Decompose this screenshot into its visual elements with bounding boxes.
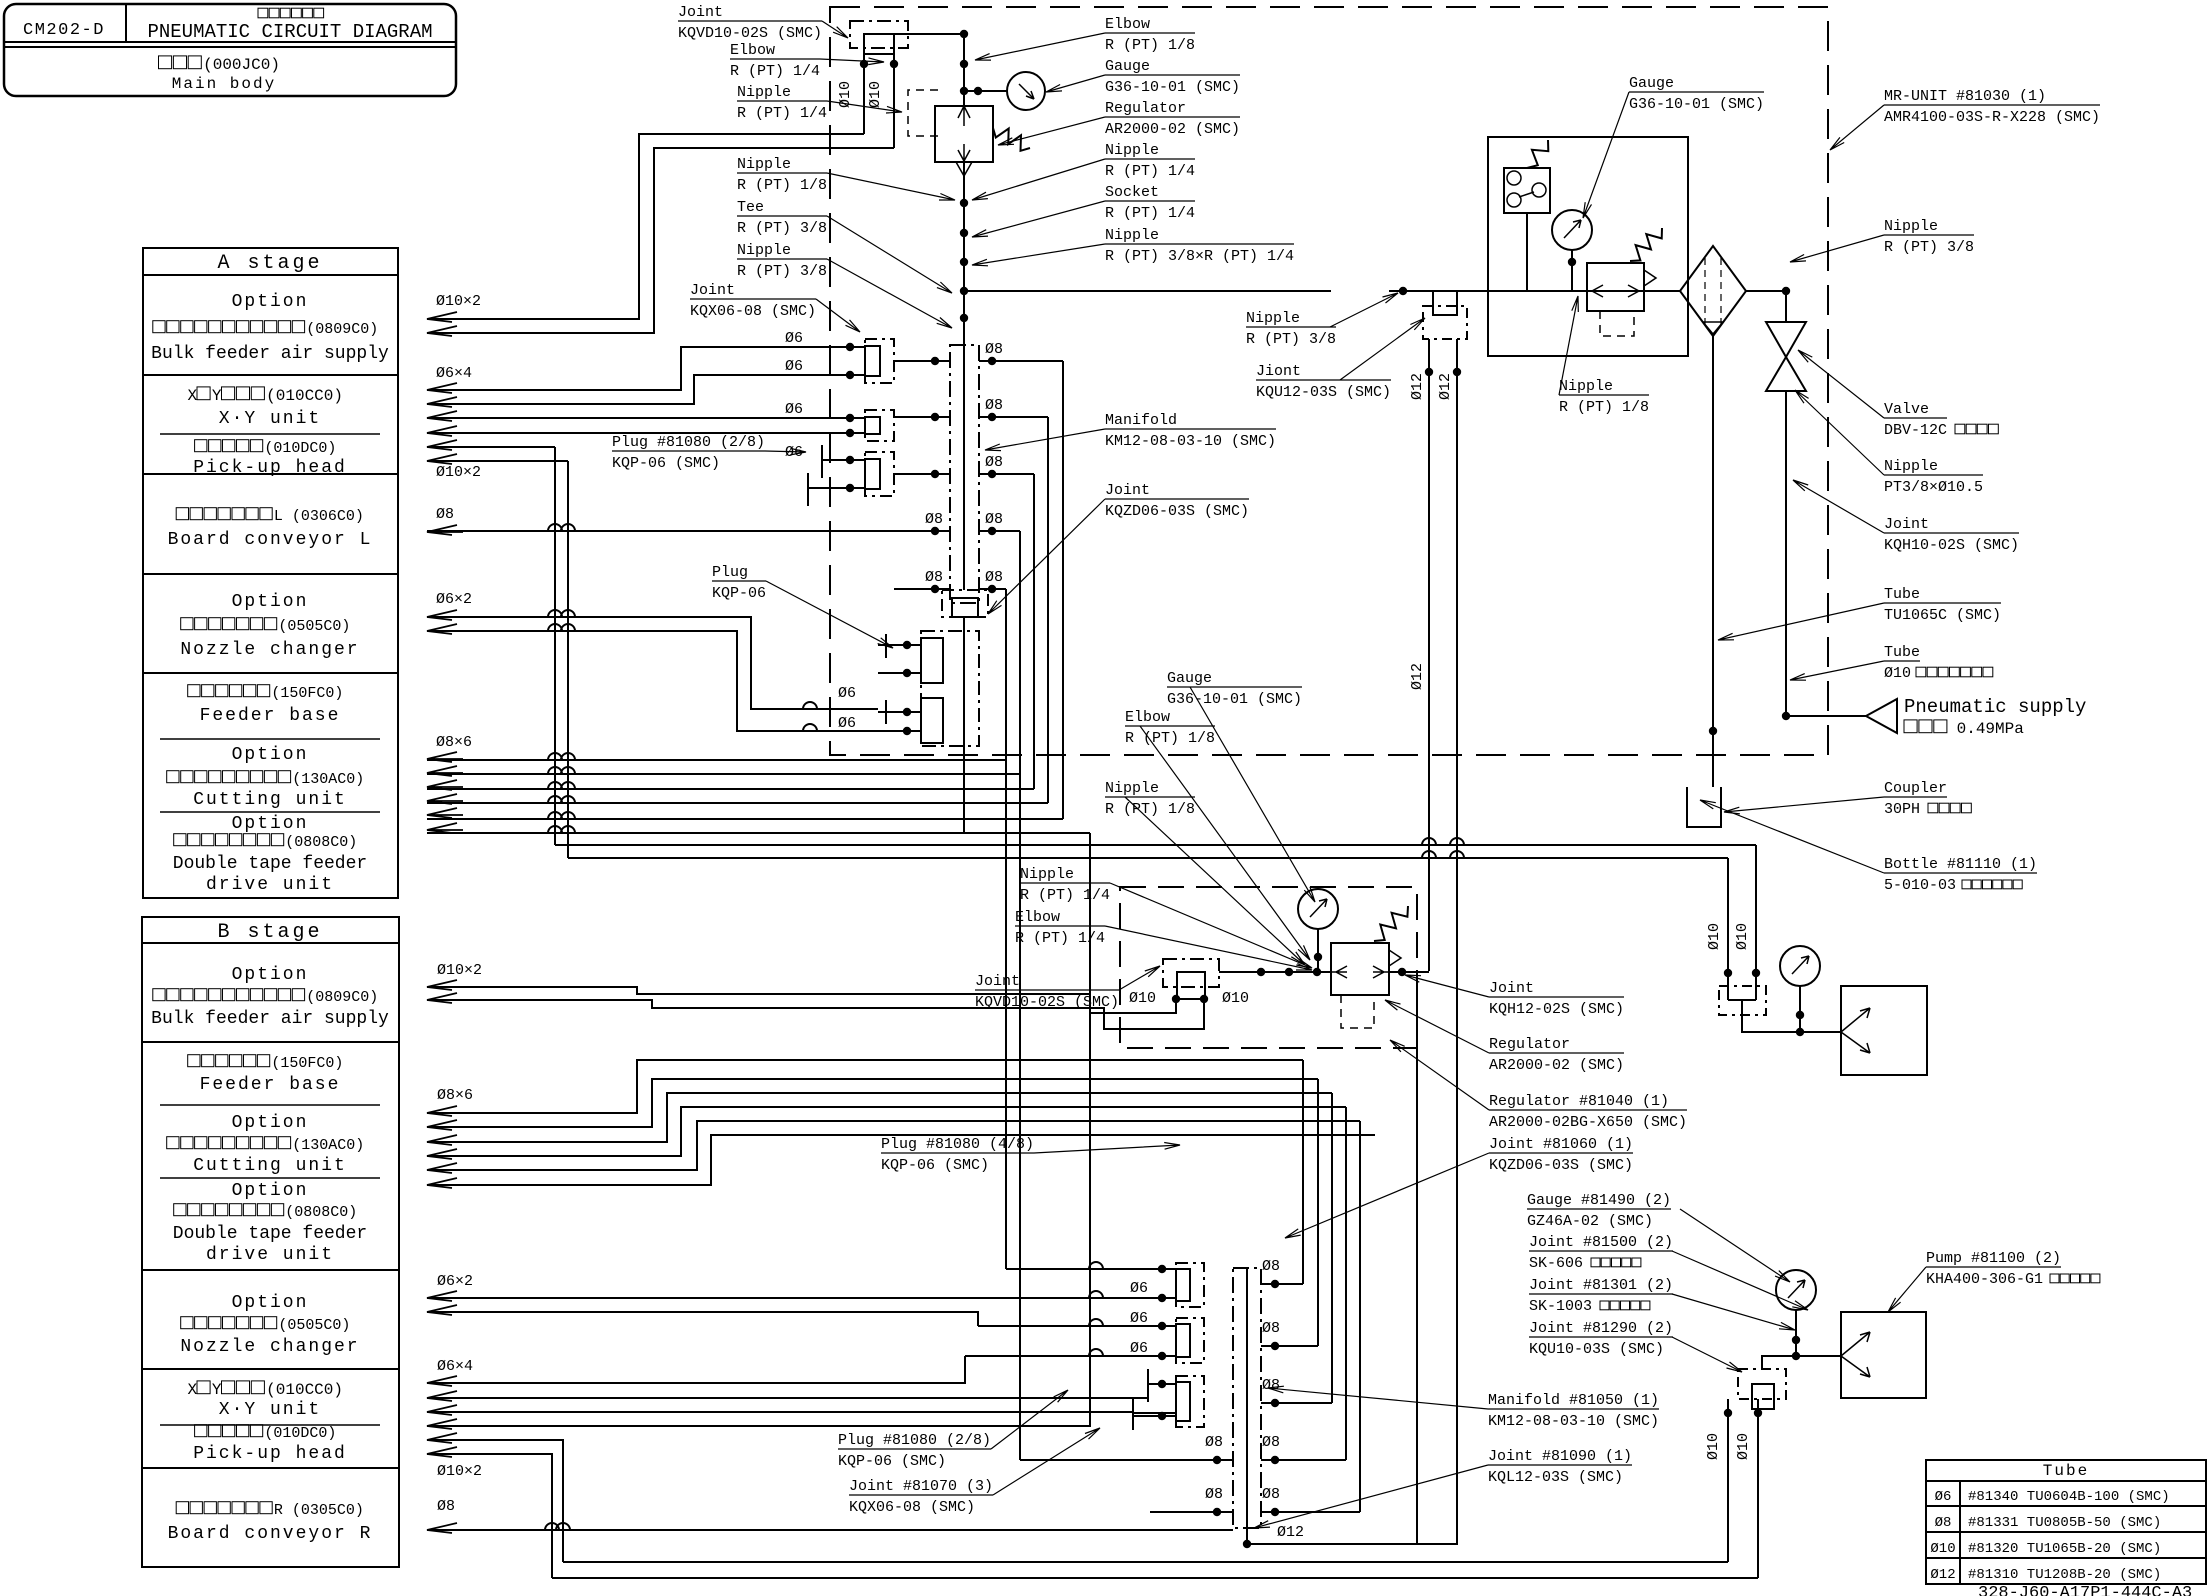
arrow head O8 wire y=532 [427,525,463,535]
wire O6x4 A 1 [427,347,836,390]
svg-text:Ø6×2: Ø6×2 [437,1273,473,1290]
svg-text:(0809C0): (0809C0) [306,321,378,338]
node dot gauge B [1314,953,1322,961]
tube table frame [1926,1460,2206,1584]
svg-text:Ø12: Ø12 [1409,663,1426,690]
manifold B right drop 1 [1302,1060,1304,1284]
svg-text:Plug #81080 (4/8): Plug #81080 (4/8) [881,1136,1034,1153]
subtitle main body japanese [159,56,202,69]
svg-text:Ø6: Ø6 [838,685,856,702]
arrow head O8x6 wire y=773 [427,766,463,776]
svg-text:A stage: A stage [217,252,322,275]
svg-text:Joint: Joint [690,282,735,299]
gauge B circle [1298,889,1338,929]
svg-text:SK-606: SK-606 [1529,1255,1583,1272]
arrow head O6x2 wire y=617 [427,610,463,620]
manifold B right port O8 1 [1261,1283,1303,1285]
node dots pump A line [1796,1011,1804,1019]
svg-text:Y: Y [212,387,222,405]
svg-text:Joint #81290 (2): Joint #81290 (2) [1529,1320,1673,1337]
svg-text:KQH12-02S (SMC): KQH12-02S (SMC) [1489,1001,1624,1018]
gauge MR stem [1571,250,1573,291]
arrow head O8 wire y=1530 [427,1523,463,1533]
node dot supply [1782,712,1790,720]
svg-text:Ø6×2: Ø6×2 [436,591,472,608]
main line B y=972 [1219,971,1331,973]
label plug 81080 4/8 B [881,1136,1034,1153]
svg-text:Main body: Main body [172,75,276,93]
wire O6x4 B 2 [427,1397,1148,1399]
svg-text:(010DC0): (010DC0) [264,440,336,457]
wire O10x2 pickup A stub 2 [427,460,568,462]
label bottle 81110 [1884,856,2037,873]
label gauge G36 MR [1629,75,1764,92]
arrow head O8x6 wire y=815 [427,808,463,818]
svg-text:Valve: Valve [1884,401,1929,418]
node dot gauge MR [1568,258,1576,266]
svg-text:KM12-08-03-10 (SMC): KM12-08-03-10 (SMC) [1488,1413,1659,1430]
node dot joint right [890,60,898,68]
svg-text:R (PT) 3/8: R (PT) 3/8 [1884,239,1974,256]
joint B pump stem up [1762,1356,1841,1369]
center vertical feed 2 [1019,531,1021,1460]
wires plug bars to joint3 [822,459,865,461]
svg-text:G36-10-01 (SMC): G36-10-01 (SMC) [1105,79,1240,96]
svg-text:Feeder base: Feeder base [200,706,341,726]
svg-text:R (PT) 1/8: R (PT) 1/8 [737,177,827,194]
label elbow R PT 1/8 right [1105,16,1195,33]
O12 vertical right [1456,339,1458,1544]
joint KQU12-03S dashed box [1423,306,1467,339]
svg-text:Manifold #81050 (1): Manifold #81050 (1) [1488,1392,1659,1409]
wire O8x6 A band 5 [427,818,1063,820]
svg-text:Coupler: Coupler [1884,780,1947,797]
label gauge 81490 [1527,1192,1671,1209]
joint KQVD10 B body [1177,972,1205,999]
tube table row divider [1926,1557,2206,1559]
center vertical feed 1 [1005,589,1007,1269]
MR-UNIT solid box [1488,137,1688,356]
svg-text:Ø10×2: Ø10×2 [436,464,481,481]
label plug 81080 2/8 B [838,1432,991,1449]
svg-text:KQVD10-02S (SMC): KQVD10-02S (SMC) [678,25,822,42]
svg-text:X·Y unit: X·Y unit [219,409,321,429]
manifold B right port O8 5 [1261,1511,1360,1513]
label plug KQP-06 A [712,564,766,581]
gauge A (G36-10-01) circle [1007,72,1045,110]
regulator MR dashed drain box [1600,311,1634,336]
svg-text:Ø8×6: Ø8×6 [437,1087,473,1104]
svg-text:X: X [187,1381,197,1399]
svg-text:PNEUMATIC CIRCUIT DIAGRAM: PNEUMATIC CIRCUIT DIAGRAM [147,21,432,43]
svg-text:KQZD06-03S (SMC): KQZD06-03S (SMC) [1105,503,1249,520]
svg-text:Ø8: Ø8 [925,511,943,528]
label nipple R PT 3/8 right [1884,218,1974,235]
wire joint right port down [893,54,895,148]
regulator B spring [1374,906,1408,941]
A stage row divider [143,573,398,575]
joint KQX06-08 body 1 [865,346,880,376]
svg-text:Gauge #81490 (2): Gauge #81490 (2) [1527,1192,1671,1209]
node dot tee at 1403 [1399,287,1407,295]
svg-text:Ø10: Ø10 [867,81,884,108]
svg-text:Ø6×4: Ø6×4 [436,365,472,382]
wire O6x4 B 4 [427,1414,1090,1426]
svg-text:G36-10-01 (SMC): G36-10-01 (SMC) [1167,691,1302,708]
pump box B [1841,1312,1926,1398]
bottom right verticals to pump B [1727,1399,1729,1562]
joint KQX06-08 (A) dash-dot box 2 [865,410,894,441]
big dashed enclosure box (main body boundary) [830,7,1828,755]
regulator B internal arrows [1331,966,1389,978]
label valve DBV-12C [1884,401,1947,418]
svg-text:Gauge: Gauge [1629,75,1674,92]
wire O6x4 A 4 [427,432,836,434]
svg-text:TU1065C (SMC): TU1065C (SMC) [1884,607,2001,624]
svg-text:R (PT) 1/8: R (PT) 1/8 [1105,37,1195,54]
svg-text:R (PT) 1/8: R (PT) 1/8 [1105,801,1195,818]
svg-text:Nipple: Nipple [1105,780,1159,797]
svg-text:Ø6×4: Ø6×4 [437,1358,473,1375]
svg-text:Ø6: Ø6 [785,330,803,347]
svg-text:Plug: Plug [712,564,748,581]
svg-text:Option: Option [232,965,309,985]
svg-text:Ø8: Ø8 [925,569,943,586]
svg-text:Nipple: Nipple [1020,866,1074,883]
manifold B right drop 2 [1317,1079,1319,1346]
label regulator 81040 [1489,1093,1687,1110]
title japanese air piping diagram [258,8,324,18]
A stage row divider [143,374,398,376]
gauge pump A circle [1780,946,1820,986]
svg-text:Pick-up head: Pick-up head [193,1444,347,1464]
B stage row divider [142,1269,399,1271]
wire O8x6 B 5 [427,1121,1360,1170]
gauge B stem [1317,929,1319,972]
svg-text:Option: Option [232,592,309,612]
manifold B left port O6 4 [965,1355,1176,1357]
label nipple R PT 1/8 left [737,156,827,173]
regulator A internal arrows [958,106,970,162]
wire O6x4 B 1 [427,1356,965,1383]
regulator B output line [1389,971,1429,973]
svg-text:Ø6: Ø6 [1935,1489,1952,1505]
A stage table frame [143,248,398,898]
label joint KQH12-02S [1489,980,1624,997]
svg-text:GZ46A-02 (SMC): GZ46A-02 (SMC) [1527,1213,1653,1230]
wire O10 B bulk 1 [427,987,1176,1013]
svg-text:Option: Option [232,292,309,312]
node dots O12 [1425,368,1433,376]
svg-text:KQP-06 (SMC): KQP-06 (SMC) [612,455,720,472]
joint ports dots 3 [846,456,854,464]
svg-text:Ø10×2: Ø10×2 [437,962,482,979]
A stage row divider [143,274,398,276]
label MR-UNIT 81030 [1884,88,2100,105]
joint KQX06-08 (A) dash-dot box 1 [865,339,894,383]
filter diamond [1680,246,1746,336]
svg-text:AR2000-02 (SMC): AR2000-02 (SMC) [1105,121,1240,138]
svg-text:#81320 TU1065B-20 (SMC): #81320 TU1065B-20 (SMC) [1968,1541,2161,1557]
svg-text:Regulator: Regulator [1105,100,1186,117]
svg-text:Nipple: Nipple [1559,378,1613,395]
svg-text:Ø10: Ø10 [1222,990,1249,1007]
wire O10x2 pickup A vertical 2 [567,461,569,858]
svg-text:Ø8: Ø8 [1262,1320,1280,1337]
label socket R PT 1/4 [1105,184,1195,201]
joint ports dots 1 [846,343,854,351]
svg-text:Ø10: Ø10 [1884,665,1911,682]
svg-text:Nipple: Nipple [1246,310,1300,327]
svg-text:Pick-up head: Pick-up head [193,458,347,478]
wire O6x2 B 2 [427,1312,978,1326]
label tube O10 hose [1884,644,1920,661]
svg-text:Nipple: Nipple [737,84,791,101]
manifold B left port O6 5 [1148,1383,1176,1385]
svg-text:KQX06-08 (SMC): KQX06-08 (SMC) [690,303,816,320]
svg-text:R (PT) 3/8: R (PT) 3/8 [1246,331,1336,348]
svg-text:Plug #81080 (2/8): Plug #81080 (2/8) [612,434,765,451]
center feed 2 elbow [1020,1459,1150,1461]
svg-text:(150FC0): (150FC0) [271,1055,343,1072]
wire O8x6 A band 1 [427,759,1006,761]
label joint 81290 [1529,1320,1673,1337]
arrow head O10x2 wire y=447 [427,440,463,450]
label elbow R PT 1/4 top [730,42,820,59]
svg-text:KQU12-03S (SMC): KQU12-03S (SMC) [1256,384,1391,401]
manifold A port O8 line 3 [894,473,950,475]
wire O6x2 A 2 [427,631,878,731]
svg-text:(130AC0): (130AC0) [292,771,364,788]
svg-text:R (PT) 1/8: R (PT) 1/8 [1559,399,1649,416]
svg-text:Joint #81301 (2): Joint #81301 (2) [1529,1277,1673,1294]
manifold B right drop 3 [1331,1093,1333,1403]
svg-text:Board conveyor R: Board conveyor R [168,1524,373,1544]
svg-text:R (PT) 1/4: R (PT) 1/4 [730,63,820,80]
svg-text:R (PT) 1/4: R (PT) 1/4 [1105,205,1195,222]
arrow head O6x4 wire y=1398 [427,1391,463,1401]
svg-text:Pump #81100 (2): Pump #81100 (2) [1926,1250,2061,1267]
svg-text:Option: Option [232,1293,309,1313]
wire O8x6 A band 6 [427,832,1090,834]
manifold KM12-08-03-10 (B) dash-dot box [1233,1268,1261,1528]
wire O10x2 A bulk feeder 1 [427,134,864,319]
svg-text:KQX06-08 (SMC): KQX06-08 (SMC) [849,1499,975,1516]
svg-text:Nipple: Nipple [737,242,791,259]
B stage table frame [142,917,399,1567]
svg-text:Ø8: Ø8 [985,511,1003,528]
tube table column divider [1959,1481,1961,1584]
svg-text:Y: Y [212,1381,222,1399]
svg-text:R (PT) 3/8: R (PT) 3/8 [737,263,827,280]
svg-text:Jiont: Jiont [1256,363,1301,380]
label nipple R PT 1/4 right [1105,142,1195,159]
dashed box left of regulator A [908,90,938,136]
svg-text:AR2000-02 (SMC): AR2000-02 (SMC) [1489,1057,1624,1074]
svg-text:CM202-D: CM202-D [23,21,105,40]
wire O10x2 pickup A stub 1 [427,446,555,448]
arrow head O10x2 wire y=987 [427,980,463,990]
svg-text:Joint #81070 (3): Joint #81070 (3) [849,1478,993,1495]
A stage row board conveyor L [176,508,272,520]
pneumatic supply line [1786,715,1866,717]
joint KQL12-03S (B) dashed box [1738,1369,1786,1399]
svg-text:KQP-06: KQP-06 [712,585,766,602]
label regulator AR2000-02 B [1489,1036,1624,1053]
manifold B left side O8 wires rows 4-5 [1150,1459,1233,1461]
svg-text:AMR4100-03S-R-X228 (SMC): AMR4100-03S-R-X228 (SMC) [1884,109,2100,126]
wire O8 B board conveyor [427,1529,1233,1531]
svg-text:Option: Option [232,1113,309,1133]
wire O6x4 B 3 [427,1411,1133,1413]
manifold A port O8 line 1 [894,360,950,362]
main supply line y=291 [964,290,1331,292]
svg-text:Option: Option [232,814,309,834]
regulator MR internal arrows [1587,285,1644,297]
regulator MR side triangle [1644,270,1656,286]
pump/bottle box A [1841,986,1927,1075]
svg-text:KM12-08-03-10 (SMC): KM12-08-03-10 (SMC) [1105,433,1276,450]
B plug bars (Plug #81080) [1147,1369,1149,1402]
regulator MR spring [1630,228,1662,261]
svg-text:Nipple: Nipple [1884,458,1938,475]
wire O10x2 A bulk feeder 2 [427,148,894,333]
svg-text:Ø10×2: Ø10×2 [436,293,481,310]
svg-text:KHA400-306-G1: KHA400-306-G1 [1926,1271,2043,1288]
svg-text:KQH10-02S (SMC): KQH10-02S (SMC) [1884,537,2019,554]
node dot drain [1709,727,1717,735]
nozzle cluster plugs and dots [903,641,911,649]
svg-text:Double tape feeder: Double tape feeder [173,1224,367,1244]
manifold KM12-08-03-10 (A) dash-dot box [950,345,979,603]
long bottom wire 1 [563,1561,1728,1563]
svg-text:Ø10: Ø10 [1706,923,1723,950]
B stage row feeder base cutting double feeder [188,1055,270,1067]
svg-text:Joint #81090 (1): Joint #81090 (1) [1488,1448,1632,1465]
svg-text:Ø8: Ø8 [1205,1434,1223,1451]
wire O6x2 A 1 [427,617,878,709]
arrow head O10x2 wire y=461 [427,454,463,464]
arrow head O6x2 wire y=1312 [427,1305,463,1315]
svg-text:DBV-12C: DBV-12C [1884,422,1947,439]
B stage row board conveyor R [176,1502,272,1514]
label nipple R PT 3/8 mid [1246,310,1336,327]
arrow head O6x2 wire y=631 [427,624,463,634]
svg-text:Ø8: Ø8 [985,397,1003,414]
svg-text:#81310 TU1208B-20 (SMC): #81310 TU1208B-20 (SMC) [1968,1567,2161,1583]
node dots pump B line [1792,1336,1800,1344]
label tube TU1065C [1884,586,2001,603]
title block divider horizontal double [4,41,456,43]
svg-text:Ø12: Ø12 [1277,1524,1304,1541]
svg-text:Bottle #81110 (1): Bottle #81110 (1) [1884,856,2037,873]
arrow head O8x6 wire y=1156 [427,1149,463,1159]
arrow head O8x6 wire y=1142 [427,1135,463,1145]
label tee R PT 3/8 [737,199,827,216]
label gauge G36-10-01 right [1105,58,1240,75]
svg-text:R (PT) 3/8: R (PT) 3/8 [737,220,827,237]
svg-text:5-010-03: 5-010-03 [1884,877,1956,894]
svg-text:(000JC0): (000JC0) [203,56,280,74]
nozzle cluster inner rects [921,638,943,683]
wire O10x2 B pickup 1 [427,1440,563,1562]
svg-text:KQU10-03S (SMC): KQU10-03S (SMC) [1529,1341,1664,1358]
regulator AR2000-02 (A) box [935,106,993,162]
svg-text:G36-10-01 (SMC): G36-10-01 (SMC) [1629,96,1764,113]
svg-text:MR-UNIT #81030 (1): MR-UNIT #81030 (1) [1884,88,2046,105]
svg-text:#81340 TU0604B-100 (SMC): #81340 TU0604B-100 (SMC) [1968,1489,2170,1505]
svg-text:L (0306C0): L (0306C0) [274,508,364,525]
manifold B left port O6 1 [1006,1268,1176,1270]
wire O10x2 long horizontal 2 [568,857,1728,859]
arrow head O6x2 wire y=1298 [427,1291,463,1301]
svg-text:X·Y unit: X·Y unit [219,1400,321,1420]
arrow head O6x4 wire y=433 [427,426,463,436]
svg-text:Nozzle changer: Nozzle changer [180,1337,359,1357]
arrow head O10x2 wire y=319 [427,312,463,322]
arrow head O6x4 wire y=1383 [427,1376,463,1386]
wire O8x6 B 6 [427,1135,1375,1185]
svg-text:30PH: 30PH [1884,801,1920,818]
label joint KQX06-08 [690,282,816,299]
svg-text:Socket: Socket [1105,184,1159,201]
regulator A drain arrow [956,162,972,176]
svg-text:Joint #81500 (2): Joint #81500 (2) [1529,1234,1673,1251]
node dot reg B out [1398,968,1406,976]
arrow head O8x6 wire y=1185 [427,1178,463,1188]
arrow head O10x2 wire y=1000 [427,993,463,1003]
joint KQX06-08 (A) dash-dot box 3 [865,452,894,496]
svg-text:Nipple: Nipple [1884,218,1938,235]
label joint 81060 [1489,1136,1633,1153]
center vertical feed 3 [1033,474,1035,789]
svg-text:Cutting unit: Cutting unit [193,790,347,810]
svg-text:Ø6: Ø6 [1130,1280,1148,1297]
svg-text:(150FC0): (150FC0) [271,685,343,702]
arrow head O8x6 wire y=1113 [427,1106,463,1116]
regulator A spring [993,128,1030,151]
svg-text:Board conveyor L: Board conveyor L [168,530,373,550]
svg-text:R (0305C0): R (0305C0) [274,1502,364,1519]
wire O8x6 A band 3 [427,788,1034,790]
node dot gauge A stub [974,87,982,95]
arrow head O8x6 wire y=1170 [427,1163,463,1173]
manifold B left port O6 6 [1133,1415,1176,1417]
label plug 81080 2/8 A [612,434,765,451]
arrow head O6x4 wire y=390 [427,383,463,393]
manifold B right port O8 3 [1261,1402,1332,1404]
title block frame [4,4,456,96]
svg-text:Regulator #81040 (1): Regulator #81040 (1) [1489,1093,1669,1110]
node dot joint left [860,60,868,68]
svg-text:Ø10: Ø10 [1734,923,1751,950]
wire O10x2 long horizontal 1 [555,844,1756,846]
svg-text:Tee: Tee [737,199,764,216]
svg-text:Ø8: Ø8 [1262,1258,1280,1275]
center vertical feed 4 [1047,417,1049,803]
svg-text:Ø6: Ø6 [785,358,803,375]
svg-text:Bulk feeder air supply: Bulk feeder air supply [151,1009,389,1029]
regulator MR box [1587,263,1644,311]
wire bus to gauge A [964,90,1007,92]
valve stem top [1785,291,1787,322]
label manifold 81050 [1488,1392,1659,1409]
arrow head O10x2 wire y=333 [427,326,463,336]
wire O8x6 B 1 [427,1060,1303,1113]
svg-text:(0505C0): (0505C0) [278,618,350,635]
arrow head O10x2 wire y=1440 [427,1433,463,1443]
wire O8 board conveyor L [427,530,908,532]
